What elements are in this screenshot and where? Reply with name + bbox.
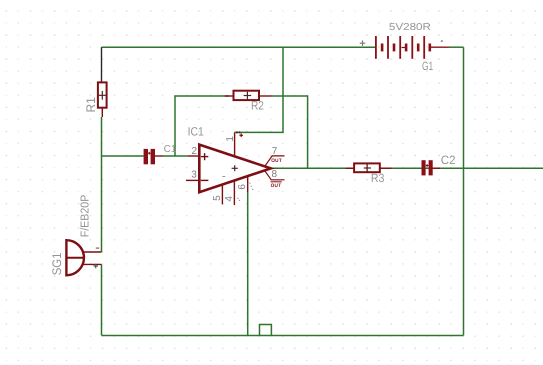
svg-text:6: 6 bbox=[237, 184, 248, 190]
svg-text:IC1: IC1 bbox=[188, 125, 205, 139]
svg-text:OUT: OUT bbox=[271, 183, 282, 189]
svg-text:G1: G1 bbox=[422, 59, 433, 73]
svg-text:C2: C2 bbox=[441, 153, 456, 167]
svg-text:2: 2 bbox=[192, 146, 198, 157]
svg-text:3: 3 bbox=[191, 169, 197, 180]
svg-text:8: 8 bbox=[272, 169, 278, 180]
svg-text:7: 7 bbox=[272, 146, 278, 157]
svg-text:4: 4 bbox=[224, 196, 235, 202]
svg-text:OUT: OUT bbox=[271, 158, 282, 164]
svg-text:R3: R3 bbox=[371, 171, 385, 185]
svg-text:1: 1 bbox=[225, 136, 236, 142]
svg-text:R1: R1 bbox=[84, 97, 98, 112]
svg-text:SG1: SG1 bbox=[50, 252, 64, 275]
svg-text:5V280R: 5V280R bbox=[389, 22, 431, 33]
svg-text:C1: C1 bbox=[164, 144, 177, 155]
svg-text:5: 5 bbox=[212, 195, 223, 201]
svg-text:F/EB20P: F/EB20P bbox=[80, 194, 92, 237]
svg-text:R2: R2 bbox=[251, 99, 264, 113]
